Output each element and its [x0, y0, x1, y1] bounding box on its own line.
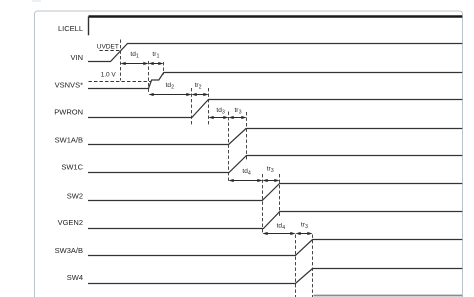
dashed guide V2 — [148, 61, 150, 94]
waveform PWRON — [88, 100, 462, 118]
dashed guide V7 — [246, 112, 248, 160]
dimension arrow tr1 — [149, 62, 164, 65]
annotation td1 — [130, 51, 139, 60]
annotation td3 — [216, 107, 225, 116]
dimension arrow td3 — [209, 116, 229, 119]
annotation tr2 — [195, 82, 202, 91]
waveform SW2 — [88, 184, 462, 201]
svg-text:VIN: VIN — [70, 53, 83, 62]
waveform VGEN2 — [88, 212, 462, 229]
annotation tr1 — [152, 51, 159, 60]
waveform partial bottom row — [314, 295, 463, 297]
dashed guide V10 — [295, 235, 297, 297]
waveform SW1C — [88, 156, 462, 173]
waveform SW1A/B — [88, 129, 462, 145]
svg-text:4: 4 — [248, 171, 251, 177]
dashed guide V3 — [163, 62, 165, 75]
svg-text:3: 3 — [222, 110, 225, 116]
svg-text:3: 3 — [271, 168, 274, 174]
annotation tr3 — [235, 107, 242, 116]
dashed guide V1 — [120, 40, 122, 81]
dashed guide V11 — [312, 235, 314, 297]
dimension arrow tr3 second — [263, 179, 280, 182]
waveform SW4 — [88, 269, 462, 284]
dashed guide V4 — [191, 88, 193, 125]
dimension arrow td4 — [229, 179, 263, 182]
waveform VSNVS* — [88, 73, 462, 89]
dimension arrow td1 — [121, 62, 149, 65]
svg-text:1.0 V: 1.0 V — [101, 72, 117, 79]
svg-text:SW1C: SW1C — [61, 163, 83, 172]
svg-text:VGEN2: VGEN2 — [58, 218, 83, 227]
dimension arrow tr3 third — [296, 232, 313, 235]
waveform SW3A/B — [88, 240, 462, 256]
dashed guide V8 — [262, 174, 264, 234]
svg-text:VSNVS*: VSNVS* — [55, 81, 83, 90]
svg-text:2: 2 — [171, 85, 174, 91]
svg-text:3: 3 — [305, 224, 308, 230]
dimension arrow td2 — [149, 93, 192, 96]
annotation tr3 second — [267, 166, 274, 175]
annotation td4 — [242, 168, 251, 177]
svg-text:LICELL: LICELL — [58, 24, 83, 33]
svg-text:1: 1 — [157, 54, 160, 60]
waveform VIN — [88, 44, 462, 62]
annotation td2 — [166, 82, 175, 91]
dashed guide V5 — [208, 88, 210, 125]
dimension arrow tr2 — [192, 93, 209, 96]
waveform LICELL — [89, 17, 463, 36]
dashed guide V9 — [279, 174, 281, 216]
svg-text:4: 4 — [282, 225, 285, 231]
svg-text:PWRON: PWRON — [54, 108, 83, 117]
svg-text:2: 2 — [199, 85, 202, 91]
svg-text:SW3A/B: SW3A/B — [55, 246, 83, 255]
svg-text:UVDET: UVDET — [97, 44, 119, 51]
svg-text:SW2: SW2 — [67, 192, 83, 201]
faint artifact top-left — [32, 0, 41, 2]
dimension arrow tr3 — [229, 116, 247, 119]
dimension arrow td4 second — [263, 232, 296, 235]
dashed 1.0V level — [89, 81, 152, 83]
annotation tr3 third — [301, 222, 308, 231]
svg-text:SW1A/B: SW1A/B — [55, 135, 83, 144]
annotation td4 second — [277, 223, 286, 232]
svg-text:3: 3 — [239, 110, 242, 116]
dashed UVDET level — [99, 50, 120, 52]
svg-text:1: 1 — [136, 54, 139, 60]
svg-text:SW4: SW4 — [67, 273, 83, 282]
dashed guide V6 — [228, 112, 230, 182]
